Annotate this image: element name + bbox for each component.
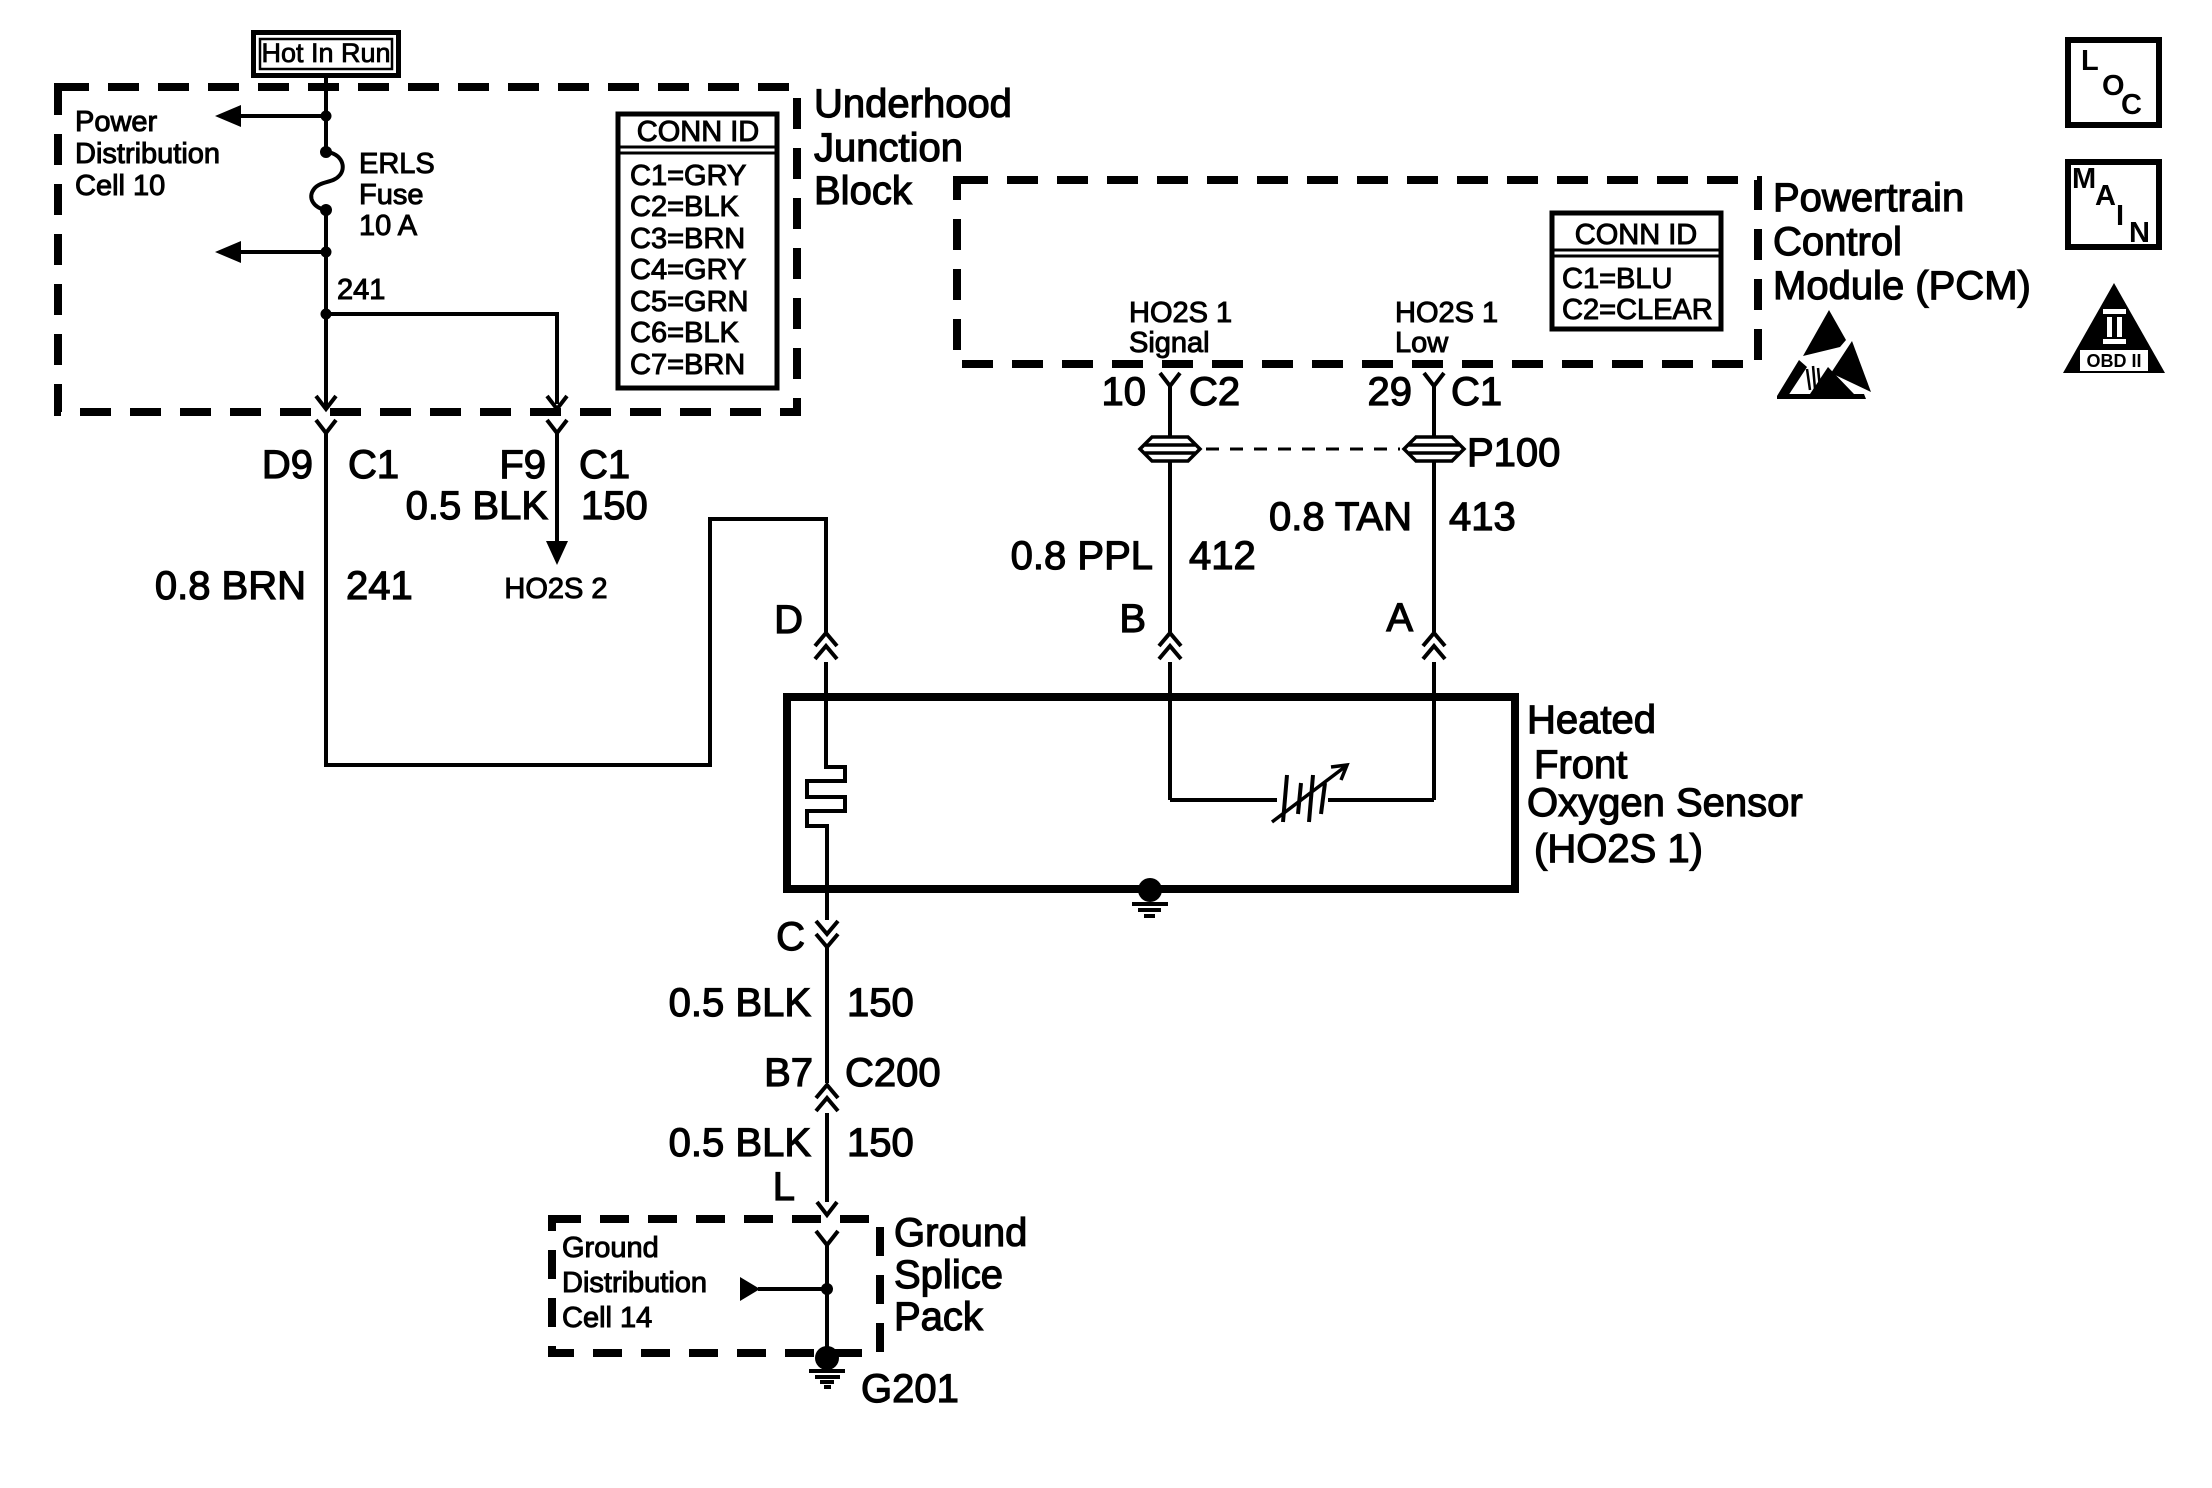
svg-text:Ground: Ground — [894, 1211, 1027, 1255]
junction + arrow to Power Distribution (upper) — [215, 105, 332, 127]
sensor label — [1527, 698, 1803, 871]
svg-text:D: D — [774, 598, 803, 642]
svg-text:G201: G201 — [861, 1367, 959, 1411]
svg-text:C1=GRY: C1=GRY — [630, 160, 746, 192]
svg-text:B7: B7 — [764, 1051, 813, 1095]
svg-text:0.5 BLK: 0.5 BLK — [406, 484, 549, 528]
svg-text:0.8 PPL: 0.8 PPL — [1011, 534, 1153, 578]
svg-text:0.8 TAN: 0.8 TAN — [1269, 495, 1412, 539]
svg-text:150: 150 — [847, 981, 914, 1025]
svg-text:412: 412 — [1189, 534, 1256, 578]
svg-text:150: 150 — [847, 1121, 914, 1165]
svg-text:Hot In Run: Hot In Run — [261, 38, 390, 68]
svg-text:F9: F9 — [499, 443, 546, 487]
svg-text:M: M — [2072, 163, 2096, 195]
labels F9 | C1 — [499, 443, 630, 487]
svg-text:10 A: 10 A — [359, 210, 418, 242]
svg-text:241: 241 — [346, 564, 413, 608]
svg-text:150: 150 — [581, 484, 648, 528]
svg-text:N: N — [2129, 217, 2150, 249]
PCM CONN ID table — [1552, 213, 1721, 329]
net 241 label (inside block) — [337, 274, 385, 306]
svg-text:A: A — [1386, 596, 1413, 640]
svg-text:C2: C2 — [1189, 370, 1240, 414]
wire 0.8 TAN 413 + A chevrons — [1269, 461, 1516, 800]
Underhood Junction Block label — [814, 82, 1012, 213]
label box "Hot In Run" — [254, 33, 399, 76]
svg-text:C200: C200 — [845, 1051, 941, 1095]
Power Distribution Cell 10 label — [75, 106, 220, 202]
arrowhead into border (F9 drop) — [547, 396, 567, 409]
svg-text:Splice: Splice — [894, 1253, 1003, 1297]
Underhood Junction Block dashed box — [58, 87, 797, 412]
svg-text:Power: Power — [75, 106, 158, 138]
inline connector P100 (right half) + dashed link + label — [1206, 431, 1560, 475]
svg-text:ERLS: ERLS — [359, 148, 435, 180]
labels D9 | C1 — [262, 443, 399, 487]
junction + branch wire to F9 — [321, 309, 558, 405]
svg-text:I: I — [2116, 200, 2124, 232]
svg-text:C3=BRN: C3=BRN — [630, 223, 745, 255]
svg-text:Oxygen Sensor: Oxygen Sensor — [1527, 781, 1803, 825]
svg-text:CONN ID: CONN ID — [637, 116, 759, 148]
svg-text:Pack: Pack — [894, 1295, 984, 1339]
svg-text:P100: P100 — [1467, 431, 1560, 475]
wire below fuse (net 241) — [324, 210, 328, 408]
PCM pin label HO2S 1 Low — [1395, 297, 1498, 359]
svg-text:C1: C1 — [579, 443, 630, 487]
svg-text:Distribution: Distribution — [75, 138, 220, 170]
svg-text:B: B — [1119, 597, 1146, 641]
Powertrain Control Module dashed box — [957, 180, 1758, 364]
splice fork — [816, 1231, 838, 1353]
Powertrain Control Module (PCM) label — [1773, 176, 2031, 308]
wire C below sensor + chevrons — [776, 891, 838, 1083]
svg-text:0.8 BRN: 0.8 BRN — [155, 564, 306, 608]
svg-text:Fuse: Fuse — [359, 179, 423, 211]
svg-text:Cell 10: Cell 10 — [75, 170, 165, 202]
svg-text:Signal: Signal — [1129, 327, 1210, 359]
connector fork F9 (C1) — [547, 420, 567, 433]
svg-text:Low: Low — [1395, 327, 1449, 359]
connector B7 / C200 chevrons + labels — [764, 1051, 941, 1202]
svg-text:0.5 BLK: 0.5 BLK — [669, 1121, 812, 1165]
wire label 0.5 BLK 150 (lower) — [669, 1121, 914, 1165]
connector fork D9 (C1) — [316, 420, 336, 433]
svg-text:C2=CLEAR: C2=CLEAR — [1562, 294, 1713, 326]
svg-text:Junction: Junction — [814, 126, 963, 170]
svg-text:Heated: Heated — [1527, 698, 1656, 742]
svg-text:Distribution: Distribution — [562, 1267, 707, 1299]
svg-text:Cell 14: Cell 14 — [562, 1302, 652, 1334]
svg-text:Control: Control — [1773, 220, 1902, 264]
svg-text:C1=BLU: C1=BLU — [1562, 263, 1672, 295]
svg-text:0.5 BLK: 0.5 BLK — [669, 981, 812, 1025]
svg-text:D9: D9 — [262, 443, 313, 487]
svg-text:241: 241 — [337, 274, 385, 306]
heater element — [807, 662, 845, 895]
svg-text:29: 29 — [1368, 370, 1413, 414]
svg-text:C5=GRN: C5=GRN — [630, 286, 748, 318]
pin L label + arrowhead into splice pack — [773, 1165, 837, 1215]
splice chevrons at D + label — [774, 598, 837, 701]
svg-text:Ground: Ground — [562, 1232, 659, 1264]
svg-text:L: L — [773, 1165, 795, 1209]
wire 0.8 BRN 241 (D9 to sensor D) — [155, 433, 826, 765]
ESD sensitivity symbol — [1777, 310, 1871, 399]
svg-text:C1: C1 — [348, 443, 399, 487]
pin fork 29 / C1 — [1368, 370, 1503, 437]
svg-text:10: 10 — [1102, 370, 1147, 414]
Heated Front Oxygen Sensor (HO2S 1) box — [787, 697, 1515, 889]
pin fork 10 / C2 — [1102, 370, 1241, 437]
wire from Hot In Run — [324, 78, 328, 152]
svg-text:Underhood: Underhood — [814, 82, 1012, 126]
Ground Distribution Cell 14 label — [562, 1232, 707, 1334]
sensor internal ground — [1132, 878, 1168, 916]
svg-text:(HO2S 1): (HO2S 1) — [1534, 827, 1703, 871]
svg-text:HO2S 1: HO2S 1 — [1395, 297, 1498, 329]
svg-text:Module (PCM): Module (PCM) — [1773, 264, 2031, 308]
svg-text:HO2S 2: HO2S 2 — [504, 573, 607, 605]
svg-text:HO2S 1: HO2S 1 — [1129, 297, 1232, 329]
Ground Splice Pack dashed box — [552, 1219, 880, 1353]
svg-text:A: A — [2095, 180, 2116, 212]
svg-text:C6=BLK: C6=BLK — [630, 317, 739, 349]
inline connector P100 (left half) — [1140, 437, 1200, 461]
svg-text:CONN ID: CONN ID — [1575, 219, 1697, 251]
arrowhead into border (D9 drop) — [316, 396, 336, 409]
junction + arrow to Power Distribution (lower) — [215, 241, 332, 263]
fuse ERLS 10 A — [311, 146, 343, 216]
wire 0.8 PPL 412 + B chevrons — [1011, 461, 1256, 800]
OBD II symbol — [2063, 283, 2165, 373]
fuse label ERLS Fuse 10 A — [359, 148, 435, 242]
svg-text:C1: C1 — [1451, 370, 1502, 414]
svg-text:413: 413 — [1449, 495, 1516, 539]
svg-text:C: C — [2121, 89, 2142, 121]
wire label 0.5 BLK 150 (upper) — [669, 981, 914, 1025]
Ground Splice Pack label — [894, 1211, 1027, 1339]
svg-text:C4=GRY: C4=GRY — [630, 254, 746, 286]
svg-text:C7=BRN: C7=BRN — [630, 349, 745, 381]
svg-text:Block: Block — [814, 169, 913, 213]
ground G201 — [809, 1346, 959, 1411]
wire 0.5 BLK 150 to HO2S 2 — [406, 433, 648, 605]
svg-text:C2=BLK: C2=BLK — [630, 191, 739, 223]
variable sense resistor — [1170, 765, 1434, 822]
ground distribution arrow + junction — [740, 1277, 833, 1301]
svg-text:OBD II: OBD II — [2086, 351, 2141, 371]
LOC reference box — [2068, 40, 2159, 125]
PCM pin label HO2S 1 Signal — [1129, 297, 1232, 359]
junction block CONN ID table — [618, 114, 777, 388]
MAIN reference box — [2068, 162, 2159, 249]
svg-text:Powertrain: Powertrain — [1773, 176, 1964, 220]
svg-text:C: C — [776, 915, 805, 959]
svg-text:L: L — [2081, 45, 2099, 77]
